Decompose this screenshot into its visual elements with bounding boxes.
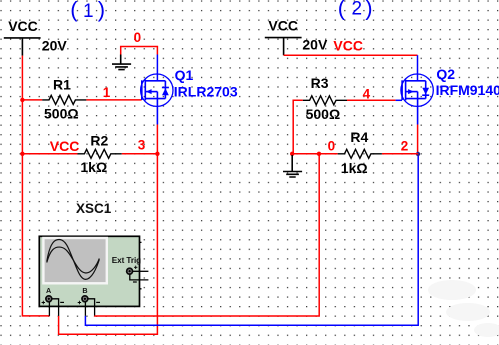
light bottom strip — [0, 337, 499, 345]
svg-text:): ) — [98, 0, 105, 22]
svg-text:R3: R3 — [311, 75, 329, 91]
svg-text:3: 3 — [138, 138, 146, 153]
Q2 body diode (down) — [422, 94, 429, 96]
svg-text:(: ( — [70, 0, 78, 22]
ground circuit 2 — [283, 155, 302, 177]
Ext Trig terminal — [127, 268, 133, 274]
Q2 arrow (PMOS, pointing right) — [408, 89, 414, 94]
svg-text:VCC: VCC — [8, 18, 38, 34]
svg-text:): ) — [365, 0, 372, 20]
wire node 4 (R3 to Q2 gate) — [347, 99, 396, 101]
svg-text:500Ω: 500Ω — [44, 106, 79, 122]
wire R1 left — [22, 99, 42, 101]
junction gnd2 — [290, 152, 294, 156]
faint watermark bottom right — [428, 280, 499, 337]
wire node 0 row — [292, 153, 338, 155]
transistor Q1 internals — [142, 80, 166, 125]
wire scope B+ to node 2 (blue) — [85, 155, 418, 326]
svg-text:R1: R1 — [53, 77, 71, 93]
svg-text:VCC: VCC — [333, 38, 363, 54]
oscilloscope XSC1 body — [39, 236, 139, 306]
resistor R3 — [303, 96, 347, 105]
transistor Q2 internals — [402, 80, 426, 125]
svg-text:A: A — [46, 286, 51, 295]
svg-text:1kΩ: 1kΩ — [80, 159, 107, 175]
svg-text:VCC: VCC — [268, 18, 298, 34]
terminal B — [82, 296, 88, 302]
terminal A polarity — [42, 301, 45, 304]
wire R3 left leg — [293, 100, 303, 154]
terminal B polarity — [78, 301, 81, 304]
wire node 3 (R2 to Q1 source net) — [122, 153, 158, 155]
svg-text:1kΩ: 1kΩ — [341, 160, 368, 176]
junction node 0 — [317, 152, 321, 156]
wire Q2 source to node 2 — [417, 125, 419, 154]
wire VCC1 net vertical + to scope A+ — [22, 56, 49, 316]
junction VCC1/R2 — [20, 152, 24, 156]
wire node 2 (R4 to Q2 source net) — [382, 153, 418, 155]
svg-text:Q2: Q2 — [436, 66, 455, 82]
wire scope B- to node 0 (red) — [95, 154, 320, 316]
svg-text:1: 1 — [83, 1, 94, 22]
power VCC1 symbol — [4, 38, 41, 56]
svg-text:(: ( — [338, 0, 346, 20]
wire Q1 drain stub (blue) — [156, 55, 158, 81]
terminal B pins (black stubs) — [85, 299, 94, 316]
Q1 arrow (NMOS, pointing left) — [146, 89, 152, 94]
svg-text:Ext Trig: Ext Trig — [112, 256, 141, 265]
svg-text:R4: R4 — [350, 129, 368, 145]
ground circuit 1 — [112, 55, 131, 70]
wire Q1 source to node 3 and down to scope A- — [59, 125, 158, 335]
svg-text:4: 4 — [363, 87, 371, 102]
svg-text:XSC1: XSC1 — [76, 201, 112, 216]
oscilloscope waveform — [47, 239, 100, 279]
svg-text:20V: 20V — [302, 37, 328, 53]
title (2) — [338, 0, 373, 20]
wire node 0 (gnd to Q1 drain) — [121, 47, 158, 55]
svg-text:2: 2 — [401, 139, 409, 154]
svg-text:0: 0 — [328, 139, 336, 154]
oscilloscope screen — [43, 238, 106, 283]
svg-text:R2: R2 — [90, 132, 108, 148]
resistor R2 — [78, 149, 122, 158]
wire R2 left — [22, 153, 77, 155]
oscilloscope pin ticks — [140, 242, 142, 288]
junction VCC1/R1 — [20, 98, 24, 102]
transistor Q2 body circle — [401, 74, 433, 106]
resistor R4 — [338, 149, 382, 158]
Q1 body diode (up) — [162, 87, 169, 89]
terminal A pins (black stubs) — [49, 299, 58, 316]
resistor R1 — [42, 95, 86, 104]
wire Q2 drain stub (blue) — [417, 55, 419, 81]
Ext Trig polarity marks — [134, 266, 137, 269]
svg-text:VCC: VCC — [50, 138, 80, 154]
svg-text:2: 2 — [352, 0, 363, 20]
wire VCC2 to Q2 drain — [284, 54, 418, 56]
wire node 1 (R1 to Q1 gate) — [86, 99, 141, 101]
terminal A — [46, 296, 52, 302]
svg-text:20V: 20V — [42, 37, 68, 53]
wire Q2 gate stub (blue) — [396, 99, 403, 101]
svg-text:500Ω: 500Ω — [306, 106, 341, 122]
svg-text:1: 1 — [103, 85, 111, 100]
junction node 2 (dark) — [416, 152, 420, 156]
svg-text:B: B — [82, 286, 87, 295]
svg-text:IRFM9140: IRFM9140 — [436, 82, 499, 98]
svg-text:0: 0 — [134, 30, 142, 45]
junction node 3 — [155, 152, 159, 156]
transistor Q1 body circle — [141, 74, 173, 106]
title (1) — [70, 0, 105, 22]
Ext Trig pins — [130, 271, 149, 280]
power VCC2 symbol — [265, 38, 302, 56]
svg-text:Q1: Q1 — [175, 67, 194, 83]
svg-text:IRLR2703: IRLR2703 — [174, 83, 238, 99]
